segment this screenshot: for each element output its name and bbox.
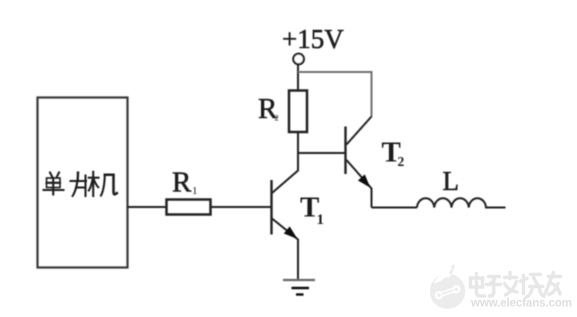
svg-text:L: L <box>443 166 460 196</box>
svg-text:2: 2 <box>398 154 405 169</box>
svg-text:+15V: +15V <box>282 24 344 54</box>
svg-text:www.elecfans.com: www.elecfans.com <box>470 298 572 310</box>
svg-text:2: 2 <box>275 113 279 123</box>
svg-text:R: R <box>172 167 192 199</box>
svg-text:1: 1 <box>317 212 325 228</box>
svg-text:1: 1 <box>192 185 198 197</box>
